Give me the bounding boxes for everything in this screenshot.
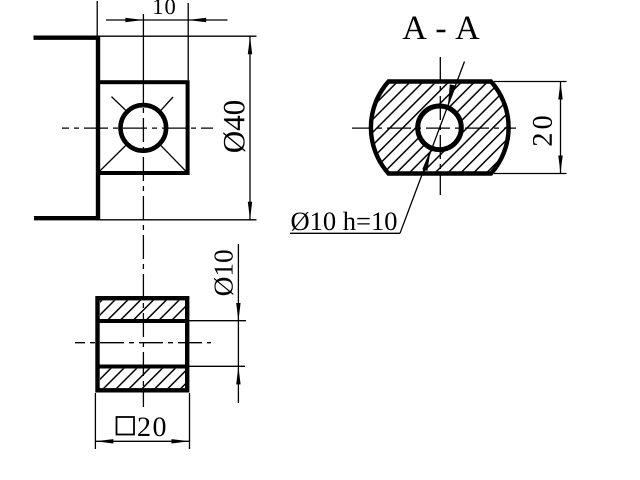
arrow down bbox=[248, 202, 252, 220]
leader line through hole bbox=[400, 62, 465, 234]
ext line bottom bbox=[189, 365, 245, 367]
centerline horizontal bottom view bbox=[75, 342, 211, 344]
arrow up bbox=[558, 82, 562, 100]
plate bottom edge bbox=[34, 216, 100, 220]
flat diagonal top-right bbox=[161, 97, 173, 110]
section outline bbox=[371, 82, 509, 174]
label 20 bottom bbox=[138, 0, 552, 436]
ext line right bbox=[189, 393, 191, 449]
arrow left bbox=[95, 439, 113, 443]
label dimD40: "Ø40" bbox=[223, 101, 245, 152]
square symbol bbox=[117, 417, 135, 435]
label dimD10-bottom: "Ø10" bbox=[214, 250, 233, 295]
centerline horizontal section bbox=[352, 127, 516, 129]
ext line right bbox=[187, 3, 189, 80]
centerline horizontal front bbox=[62, 127, 213, 129]
plate top edge bbox=[34, 36, 101, 40]
ext line top bbox=[189, 320, 246, 322]
leader arrow lower (points at hole) bbox=[422, 149, 430, 171]
dim line 10 bbox=[106, 19, 228, 21]
label dim20-right: "20" bbox=[533, 116, 552, 145]
arrow down bbox=[558, 156, 562, 174]
ext line left bbox=[94, 393, 96, 449]
hole upper line bbox=[98, 319, 188, 323]
arrow up to hole bottom bbox=[236, 366, 240, 384]
dim line D10 bbox=[237, 244, 239, 403]
hole lower line bbox=[98, 365, 188, 369]
arrow right bbox=[172, 439, 190, 443]
plate right edge vertical bbox=[96, 36, 100, 221]
ext line top bbox=[100, 35, 257, 37]
label dim20-bottom: "20" bbox=[138, 417, 165, 436]
ext line left bbox=[96, 1, 98, 36]
bottom hatch band bbox=[100, 369, 185, 389]
label title A-A: "A - A" bbox=[403, 17, 480, 39]
section body with hatch fill bbox=[371, 82, 509, 174]
arrow at centerline bbox=[125, 18, 143, 22]
arrow up bbox=[248, 36, 252, 54]
arrow at right ext bbox=[188, 18, 206, 22]
outer square bbox=[98, 298, 188, 390]
dim line 20 bbox=[560, 82, 562, 174]
boss square outline bbox=[98, 82, 188, 173]
flat diagonal top-left bbox=[112, 97, 126, 111]
leader arrow upper (points at hole) bbox=[448, 84, 456, 105]
top hatch band bbox=[100, 300, 185, 319]
hole circle front bbox=[121, 105, 167, 151]
flat diagonal bottom-left bbox=[98, 145, 126, 172]
ext line bottom bbox=[100, 219, 257, 221]
arrow down to hole top bbox=[236, 303, 240, 321]
label dim10-top: "10" bbox=[154, 0, 175, 14]
section hole circle bbox=[418, 106, 462, 150]
ext line bottom bbox=[494, 173, 567, 175]
flat diagonal bottom-right bbox=[161, 145, 188, 172]
centerline vertical main (runs through both views) bbox=[142, 14, 144, 82]
label leader D10 h=10: "Ø10 h=10" bbox=[292, 212, 397, 231]
leader text D10 h=10 with underline bbox=[290, 232, 400, 234]
centerline vertical section bbox=[439, 57, 441, 195]
ext line top bbox=[494, 81, 567, 83]
dim line sq20 bbox=[95, 440, 189, 442]
dim line D40 bbox=[249, 36, 251, 220]
